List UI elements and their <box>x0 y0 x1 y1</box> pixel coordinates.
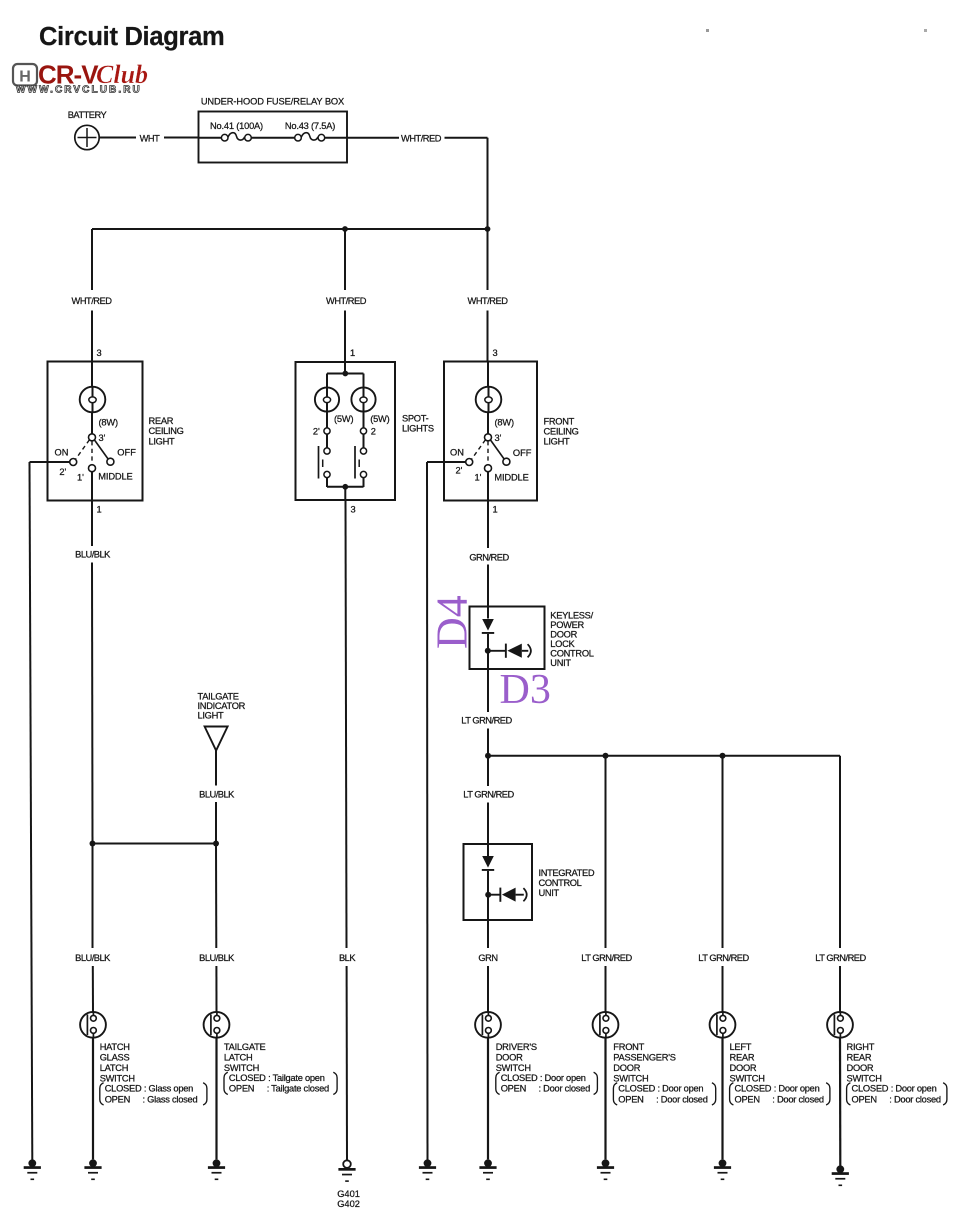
svg-text:UNIT: UNIT <box>550 658 571 668</box>
svg-text:1: 1 <box>493 505 498 515</box>
svg-text:1: 1 <box>350 348 355 358</box>
svg-text:OPEN: OPEN <box>618 1094 643 1104</box>
svg-text:UNIT: UNIT <box>539 888 560 898</box>
svg-text:CLOSED: CLOSED <box>852 1083 889 1093</box>
svg-text:SWITCH: SWITCH <box>613 1073 648 1083</box>
svg-text:LT GRN/RED: LT GRN/RED <box>461 716 512 726</box>
svg-text:BLU/BLK: BLU/BLK <box>75 953 111 963</box>
svg-text:CEILING: CEILING <box>149 426 184 436</box>
svg-text:FRONT: FRONT <box>613 1042 644 1052</box>
svg-text:OPEN: OPEN <box>229 1084 254 1094</box>
svg-text:Circuit Diagram: Circuit Diagram <box>39 23 224 51</box>
svg-text:ON: ON <box>450 448 464 458</box>
svg-text:DRIVER'S: DRIVER'S <box>496 1042 537 1052</box>
svg-text:OPEN: OPEN <box>735 1094 760 1104</box>
svg-text:MIDDLE: MIDDLE <box>494 473 528 483</box>
svg-text:(5W): (5W) <box>334 414 353 424</box>
svg-text:TAILGATE: TAILGATE <box>198 692 239 702</box>
svg-text:: Glass closed: : Glass closed <box>143 1094 198 1104</box>
svg-text:FRONT: FRONT <box>544 417 575 427</box>
svg-text:LT GRN/RED: LT GRN/RED <box>698 953 749 963</box>
svg-text:CLOSED: CLOSED <box>735 1083 772 1093</box>
svg-text:CLOSED: CLOSED <box>501 1073 538 1083</box>
svg-text:D3: D3 <box>500 667 551 713</box>
svg-text:REAR: REAR <box>847 1052 872 1062</box>
svg-text:ON: ON <box>55 448 69 458</box>
svg-text:LATCH: LATCH <box>100 1063 129 1073</box>
svg-text:DOOR: DOOR <box>847 1063 874 1073</box>
svg-text:1': 1' <box>77 472 84 482</box>
svg-text:No.41 (100A): No.41 (100A) <box>210 121 263 131</box>
svg-text:SPOT-: SPOT- <box>402 413 429 423</box>
svg-text:INTEGRATED: INTEGRATED <box>539 868 595 878</box>
svg-text:: Tailgate open: : Tailgate open <box>268 1073 325 1083</box>
svg-text:: Door closed: : Door closed <box>772 1094 824 1104</box>
svg-text:: Glass open: : Glass open <box>144 1083 193 1093</box>
svg-text:BLK: BLK <box>339 953 356 963</box>
svg-text:D4: D4 <box>428 595 477 649</box>
svg-text:(5W): (5W) <box>370 414 389 424</box>
svg-text:OPEN: OPEN <box>105 1094 130 1104</box>
svg-text:WWW.CRVCLUB.RU: WWW.CRVCLUB.RU <box>16 85 142 96</box>
svg-text:PASSENGER'S: PASSENGER'S <box>613 1052 675 1062</box>
svg-text:WHT/RED: WHT/RED <box>72 296 113 306</box>
svg-text:(8W): (8W) <box>495 418 514 428</box>
svg-text:DOOR: DOOR <box>730 1063 757 1073</box>
svg-text:REAR: REAR <box>730 1052 755 1062</box>
svg-text:INDICATOR: INDICATOR <box>198 701 246 711</box>
svg-text:BLU/BLK: BLU/BLK <box>75 550 111 560</box>
svg-text:LT GRN/RED: LT GRN/RED <box>581 953 632 963</box>
svg-text:: Door open: : Door open <box>891 1083 937 1093</box>
svg-text:No.43 (7.5A): No.43 (7.5A) <box>285 121 335 131</box>
svg-text:MIDDLE: MIDDLE <box>98 472 132 482</box>
svg-text:: Door closed: : Door closed <box>889 1094 941 1104</box>
svg-text:SWITCH: SWITCH <box>847 1073 882 1083</box>
svg-text:DOOR: DOOR <box>613 1063 640 1073</box>
svg-text:GRN/RED: GRN/RED <box>469 552 509 562</box>
svg-text:3': 3' <box>99 433 106 443</box>
svg-text:TAILGATE: TAILGATE <box>224 1042 266 1052</box>
svg-text:GRN: GRN <box>478 953 497 963</box>
svg-text:SWITCH: SWITCH <box>496 1063 531 1073</box>
svg-text:2': 2' <box>59 467 66 477</box>
svg-text:3: 3 <box>97 348 102 358</box>
svg-text:: Door open: : Door open <box>540 1073 586 1083</box>
svg-text:1': 1' <box>475 472 482 482</box>
svg-text:LT GRN/RED: LT GRN/RED <box>463 790 514 800</box>
svg-text:UNDER-HOOD FUSE/RELAY BOX: UNDER-HOOD FUSE/RELAY BOX <box>201 97 344 107</box>
svg-text:2: 2 <box>371 426 376 436</box>
svg-text:CLOSED: CLOSED <box>229 1073 266 1083</box>
svg-text:LIGHT: LIGHT <box>544 437 570 447</box>
svg-text:: Door closed: : Door closed <box>656 1094 708 1104</box>
svg-text:LIGHT: LIGHT <box>198 711 224 721</box>
svg-text:H: H <box>19 69 31 86</box>
svg-text:BATTERY: BATTERY <box>68 110 107 120</box>
svg-text:3: 3 <box>493 348 498 358</box>
svg-text:WHT/RED: WHT/RED <box>326 296 367 306</box>
svg-text:3': 3' <box>495 433 502 443</box>
svg-text:: Door open: : Door open <box>774 1083 820 1093</box>
svg-text:SWITCH: SWITCH <box>100 1073 135 1083</box>
svg-text:: Door closed: : Door closed <box>539 1084 591 1094</box>
svg-text:LIGHT: LIGHT <box>149 436 175 446</box>
svg-text:2': 2' <box>456 465 463 475</box>
svg-text:LEFT: LEFT <box>730 1042 752 1052</box>
svg-text:GLASS: GLASS <box>100 1052 130 1062</box>
svg-text:3: 3 <box>351 505 356 515</box>
svg-text:G402: G402 <box>337 1199 360 1209</box>
svg-text:SWITCH: SWITCH <box>730 1073 765 1083</box>
svg-text:OPEN: OPEN <box>852 1094 877 1104</box>
svg-text:RIGHT: RIGHT <box>847 1042 875 1052</box>
svg-text:CEILING: CEILING <box>544 427 579 437</box>
svg-text:OFF: OFF <box>117 448 136 458</box>
svg-text:BLU/BLK: BLU/BLK <box>199 789 235 799</box>
svg-text:OFF: OFF <box>513 448 532 458</box>
svg-text:: Tailgate closed: : Tailgate closed <box>267 1084 329 1094</box>
svg-text:WHT/RED: WHT/RED <box>468 296 509 306</box>
svg-text:: Door open: : Door open <box>658 1083 704 1093</box>
svg-text:SWITCH: SWITCH <box>224 1063 259 1073</box>
svg-text:CLOSED: CLOSED <box>618 1083 655 1093</box>
svg-text:DOOR: DOOR <box>496 1052 523 1062</box>
svg-text:WHT: WHT <box>140 133 160 143</box>
svg-text:HATCH: HATCH <box>100 1042 130 1052</box>
svg-text:LATCH: LATCH <box>224 1052 253 1062</box>
svg-text:OPEN: OPEN <box>501 1084 526 1094</box>
svg-text:1: 1 <box>97 505 102 515</box>
svg-text:REAR: REAR <box>149 416 174 426</box>
svg-text:(8W): (8W) <box>99 418 118 428</box>
svg-text:G401: G401 <box>337 1189 360 1199</box>
svg-text:LT GRN/RED: LT GRN/RED <box>815 953 866 963</box>
svg-text:WHT/RED: WHT/RED <box>401 133 442 143</box>
svg-text:CLOSED: CLOSED <box>105 1083 142 1093</box>
svg-text:CONTROL: CONTROL <box>539 878 582 888</box>
svg-text:2': 2' <box>313 426 320 436</box>
svg-text:LIGHTS: LIGHTS <box>402 424 434 434</box>
svg-text:BLU/BLK: BLU/BLK <box>199 953 235 963</box>
